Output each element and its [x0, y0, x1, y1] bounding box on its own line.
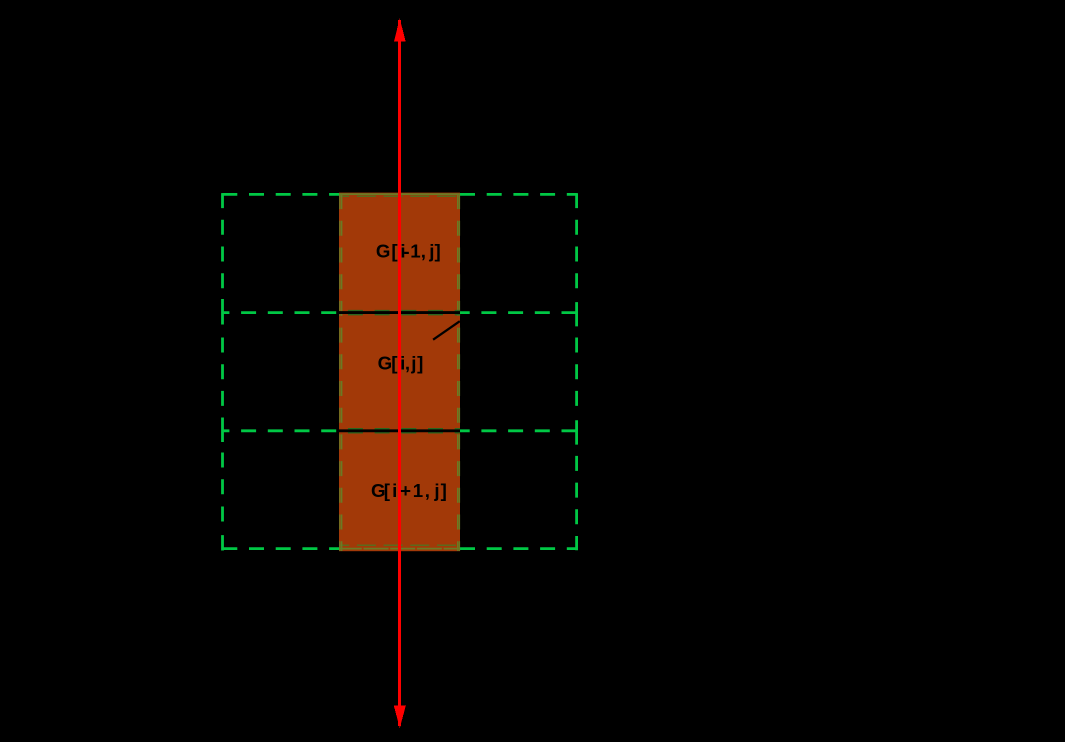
grid top edge: green dashed, right of brown: [460, 193, 577, 196]
dark-green fringe dashes on interior boundary 2 inside brown: [339, 428, 460, 434]
grid bottom edge: green dashed, right of brown: [460, 547, 577, 550]
red arrowhead bottom: [394, 705, 406, 728]
grid bottom edge: green dashed, left of brown: [222, 547, 339, 550]
olive vertical dashed double line at right cell boundary: [457, 193, 459, 551]
brown highlighted middle column of cells: [339, 193, 460, 552]
olive top band over brown: inset dashed thin line: [339, 195, 460, 197]
grid left edge: green dash segments with merged runs at junctions: [221, 193, 224, 550]
dark-green fringe dashes on interior boundary 1 inside brown: [339, 310, 460, 316]
svg-text:G[i+1,j]: G[i+1,j]: [371, 480, 447, 501]
olive bottom band over brown: near-continuous line: [339, 548, 460, 550]
olive bottom band over brown: inset dashed thin line: [339, 544, 460, 546]
black cell boundary line 2 across brown column: [339, 429, 460, 432]
red vertical axis line: [398, 20, 401, 726]
black leader line pointing to cell boundary: [433, 321, 460, 340]
black cell boundary line 1 across brown column: [339, 311, 460, 314]
grid right edge: green dash segments with merged runs at junctions: [575, 193, 578, 550]
grid top edge: green dashed, left of brown: [222, 193, 339, 196]
olive vertical dashed double line at left cell boundary: [339, 193, 341, 551]
svg-text:G[i,j]: G[i,j]: [378, 352, 424, 373]
olive top band over brown: continuous thin line: [339, 193, 460, 195]
red arrowhead top: [394, 18, 406, 41]
grid interior horizontal dashed line 2: [222, 429, 577, 432]
grid interior horizontal dashed line 1: [222, 311, 577, 314]
svg-text:G[i-1,j]: G[i-1,j]: [376, 241, 441, 262]
